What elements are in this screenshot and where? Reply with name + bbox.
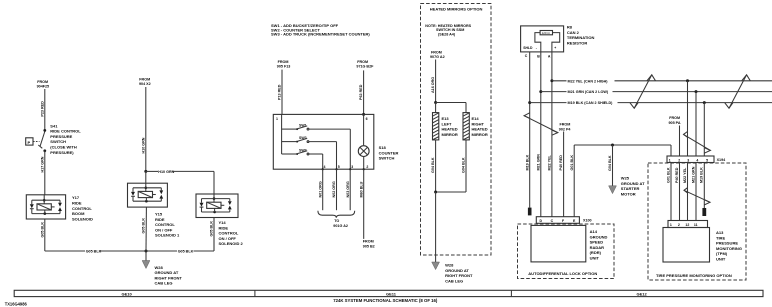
svg-text:FROM: FROM <box>139 77 150 81</box>
label Y14 <box>219 220 244 246</box>
label S18 <box>379 145 399 161</box>
svg-text:RIGHT: RIGHT <box>472 121 485 126</box>
wire M19 BLK from R8 pin C <box>525 52 529 208</box>
svg-text:Y15: Y15 <box>155 212 163 217</box>
svg-text:RIGHT FRONT: RIGHT FRONT <box>155 275 183 280</box>
svg-text:P40 RED: P40 RED <box>675 167 679 183</box>
svg-text:RESISTOR: RESISTOR <box>567 40 587 45</box>
label Y17 <box>72 195 93 221</box>
label W28 (mirrors) <box>445 263 473 284</box>
svg-text:(RDR): (RDR) <box>590 250 602 255</box>
svg-text:1: 1 <box>669 158 671 162</box>
switch SW3 <box>296 148 323 169</box>
wire P40 RED (radar) <box>559 132 563 217</box>
svg-text:B: B <box>537 54 540 58</box>
wire G05 BLK from Y14 <box>209 218 214 252</box>
connector X194 <box>667 156 726 163</box>
svg-text:C: C <box>525 54 528 58</box>
svg-text:P13 RED: P13 RED <box>278 84 282 100</box>
label E13 <box>442 116 458 137</box>
svg-text:SWITCH: SWITCH <box>50 139 66 144</box>
harness crossover symbol (TPM above connector) <box>684 132 711 154</box>
wire H10 GRN horizontal <box>144 170 214 194</box>
heated mirror element E13 <box>433 113 439 140</box>
wire H17 GRN <box>40 151 44 195</box>
svg-text:R8: R8 <box>567 25 573 30</box>
svg-text:GROUND AT: GROUND AT <box>445 268 469 273</box>
svg-text:X100: X100 <box>583 219 592 223</box>
wire H10 GRN vertical <box>141 87 145 171</box>
svg-text:3: 3 <box>687 158 689 162</box>
svg-text:CAN 2: CAN 2 <box>567 30 580 35</box>
svg-text:CONTROL: CONTROL <box>72 206 92 211</box>
wire M22 YEL from R8 pin A <box>548 52 552 217</box>
svg-text:M21 GRN: M21 GRN <box>691 166 695 183</box>
svg-text:905 PA: 905 PA <box>669 121 681 125</box>
svg-text:M19 BLK: M19 BLK <box>700 167 704 183</box>
svg-text:TO: TO <box>334 219 339 223</box>
wire G05 BLK from Y15 <box>142 207 147 251</box>
svg-text:FROM: FROM <box>669 116 680 120</box>
svg-text:M22 YEL (CAN 2 HIGH): M22 YEL (CAN 2 HIGH) <box>568 79 609 83</box>
svg-text:W28: W28 <box>445 263 454 268</box>
resistor R8 CAN 2 termination <box>521 26 564 58</box>
svg-text:H10 GRN: H10 GRN <box>141 137 145 153</box>
svg-text:6: 6 <box>366 117 368 121</box>
svg-text:CAB LEG: CAB LEG <box>445 278 463 283</box>
svg-text:FROM: FROM <box>560 122 571 126</box>
svg-text:TERMINATION: TERMINATION <box>567 35 595 40</box>
svg-text:2: 2 <box>678 223 680 227</box>
label W25 <box>621 176 645 197</box>
svg-text:RIDE: RIDE <box>219 225 229 230</box>
svg-text:G04 BLK: G04 BLK <box>462 157 466 173</box>
wire G04 BLK to starter ground <box>608 144 614 186</box>
node: FROM 905 B2 reference <box>363 240 375 249</box>
svg-text:Y17: Y17 <box>72 195 80 200</box>
svg-text:905 F13: 905 F13 <box>277 65 291 69</box>
node: FROM 905 F13 reference <box>277 60 291 69</box>
ground W25 <box>609 186 617 194</box>
wire G05 BLK from Y17 <box>40 219 44 251</box>
svg-text:TIRE: TIRE <box>716 235 725 240</box>
svg-text:MONITORING: MONITORING <box>716 246 742 251</box>
TPM unit connector pins 1 2 12 11 <box>668 221 708 228</box>
solenoid Y14 <box>196 194 238 218</box>
svg-text:FROM: FROM <box>431 51 442 55</box>
label E14 <box>472 116 488 137</box>
svg-text:GE11: GE11 <box>386 291 397 296</box>
svg-text:SOLENOID 1: SOLENOID 1 <box>155 233 180 238</box>
svg-text:M60 BLU: M60 BLU <box>359 181 363 197</box>
svg-text:G05 BLK: G05 BLK <box>178 250 194 254</box>
svg-text:BOOM: BOOM <box>72 211 85 216</box>
svg-text:2: 2 <box>678 158 680 162</box>
CAN 2 HIGH bus wire <box>550 78 772 84</box>
solenoid Y17 <box>26 195 65 219</box>
svg-text:UNIT: UNIT <box>590 256 600 261</box>
svg-text:(CLOSE WITH: (CLOSE WITH <box>50 145 77 150</box>
svg-text:STARTER: STARTER <box>621 186 640 191</box>
svg-text:SOLENOID 2: SOLENOID 2 <box>219 241 244 246</box>
svg-text:904 X2: 904 X2 <box>139 82 151 86</box>
svg-text:SHLD: SHLD <box>523 46 533 50</box>
label A13 <box>716 230 742 262</box>
svg-text:904F25: 904F25 <box>37 85 50 89</box>
svg-text:FROM: FROM <box>278 60 289 64</box>
svg-text:905 B2: 905 B2 <box>363 244 375 248</box>
mirror ground junction <box>434 191 466 263</box>
svg-text:P63 RED: P63 RED <box>359 84 363 100</box>
svg-text:4: 4 <box>324 165 326 169</box>
counter switch S18 box <box>273 114 374 169</box>
label R8 <box>567 25 595 46</box>
CAN taps to TPM: low <box>695 90 698 156</box>
svg-text:FROM: FROM <box>363 240 374 244</box>
svg-text:PRESSURE: PRESSURE <box>50 134 72 139</box>
svg-text:N02 ORG: N02 ORG <box>332 181 336 197</box>
wire G01 BLK (TPM ground feed) <box>670 145 672 156</box>
label S41 <box>50 123 81 155</box>
svg-text:RIDE: RIDE <box>72 201 82 206</box>
note SW1/SW2/SW3 functions <box>271 23 370 36</box>
label Y15 <box>155 212 180 238</box>
CAN taps to TPM: shield <box>703 101 706 156</box>
wire M19 BLK below X194 <box>700 163 705 209</box>
wire G04 BLK (E13) <box>431 140 435 192</box>
svg-text:HEATED MIRRORS OPTION: HEATED MIRRORS OPTION <box>430 7 483 12</box>
wire N03 ORG <box>346 169 350 210</box>
svg-text:4: 4 <box>696 158 698 162</box>
svg-text:11: 11 <box>694 223 698 227</box>
label W28 (left) <box>155 265 183 286</box>
wire N02 ORG <box>332 169 336 210</box>
svg-text:H17 GRN: H17 GRN <box>40 156 44 172</box>
junction node to both mirrors <box>434 101 466 113</box>
svg-text:SWITCH: SWITCH <box>379 156 395 161</box>
svg-text:A13: A13 <box>716 230 724 235</box>
note: heated mirrors switch in SSM <box>425 24 471 37</box>
svg-text:D: D <box>540 219 543 223</box>
svg-text:SWITCH IN SSM: SWITCH IN SSM <box>436 28 464 32</box>
sheet reference bar <box>14 290 763 296</box>
svg-text:971G B2F: 971G B2F <box>356 65 374 69</box>
svg-text:907G A2: 907G A2 <box>430 55 445 59</box>
svg-text:RIDE CONTROL: RIDE CONTROL <box>50 129 81 134</box>
TPM unit A13 box <box>663 228 710 263</box>
svg-text:FROM: FROM <box>37 80 48 84</box>
svg-text:H10 GRN: H10 GRN <box>158 170 174 174</box>
svg-text:SOLENOID: SOLENOID <box>72 216 93 221</box>
svg-text:901G A2: 901G A2 <box>333 224 348 228</box>
option box: auto-differential lock <box>518 224 615 279</box>
option box: heated mirrors <box>421 4 492 256</box>
radar unit A14 box <box>531 225 586 262</box>
svg-text:(TPM): (TPM) <box>716 251 728 256</box>
bus break symbol 2 <box>725 75 751 108</box>
svg-text:TX16G4986: TX16G4986 <box>5 302 28 307</box>
svg-text:P40 RED: P40 RED <box>559 155 563 171</box>
svg-text:W28: W28 <box>155 265 164 270</box>
svg-text:RADAR: RADAR <box>590 245 605 250</box>
svg-text:A: A <box>548 54 551 58</box>
svg-text:ON / OFF: ON / OFF <box>155 227 173 232</box>
svg-text:MIRROR: MIRROR <box>472 132 488 137</box>
svg-text:CAB LEG: CAB LEG <box>155 281 173 286</box>
svg-text:C: C <box>551 219 554 223</box>
svg-text:P: P <box>28 140 31 145</box>
node: FROM 971G B2F reference <box>356 60 374 69</box>
node: FROM 904F25 reference <box>37 80 50 88</box>
svg-text:GROUND: GROUND <box>590 234 608 239</box>
svg-text:S41: S41 <box>50 123 58 128</box>
wire G04 BLK (E14) <box>462 140 466 192</box>
svg-text:A16 ORG: A16 ORG <box>431 77 435 93</box>
taped end of M19 BLK (radar harness) <box>528 208 532 216</box>
taped end of M19 BLK (TPM harness) <box>702 208 706 216</box>
pressure switch S41 <box>26 129 46 152</box>
svg-text:5: 5 <box>706 158 708 162</box>
wire A16 ORG <box>431 60 435 103</box>
svg-text:(SE28 A4): (SE28 A4) <box>438 33 456 37</box>
wire P23 RED <box>40 89 44 130</box>
connector X100 <box>536 217 591 224</box>
svg-text:PRESSURE: PRESSURE <box>716 241 738 246</box>
svg-text:TIRE PRESSURE MONITORING OPTIO: TIRE PRESSURE MONITORING OPTION <box>656 273 732 278</box>
svg-text:M21 GRN (CAN 2 LOW): M21 GRN (CAN 2 LOW) <box>568 90 609 94</box>
wire N01 ORG <box>318 169 322 210</box>
svg-text:1: 1 <box>276 117 278 121</box>
S18 internal left bus <box>282 114 297 154</box>
svg-text:120 Ω: 120 Ω <box>542 31 551 35</box>
svg-text:F: F <box>562 219 565 223</box>
svg-text:G01 BLK: G01 BLK <box>570 155 574 171</box>
svg-text:CONTROL: CONTROL <box>155 222 175 227</box>
svg-text:G05 BLK: G05 BLK <box>86 250 102 254</box>
wire G05 BLK ground bus <box>45 218 214 254</box>
svg-text:X194: X194 <box>717 158 727 162</box>
svg-text:RIGHT FRONT: RIGHT FRONT <box>445 273 473 278</box>
svg-text:12: 12 <box>685 223 689 227</box>
ground W28 (left) <box>142 250 150 269</box>
svg-text:NOTE: HEATED MIRRORS: NOTE: HEATED MIRRORS <box>425 24 471 28</box>
svg-text:+: + <box>554 46 556 50</box>
lamp in S18 <box>358 114 369 169</box>
svg-text:M19 BLK (CAN 2 SHIELD): M19 BLK (CAN 2 SHIELD) <box>568 101 614 105</box>
svg-text:5: 5 <box>338 165 340 169</box>
svg-text:W25: W25 <box>621 176 630 181</box>
option box: tire pressure monitoring <box>648 163 746 280</box>
node: FROM 907G A2 reference <box>430 51 445 60</box>
harness crossover symbol (radar wires) <box>524 113 558 135</box>
label A14 <box>590 229 608 261</box>
svg-text:RIDE: RIDE <box>155 217 165 222</box>
svg-text:M21 GRN: M21 GRN <box>536 154 540 171</box>
svg-text:2: 2 <box>366 165 368 169</box>
svg-text:1: 1 <box>670 223 672 227</box>
svg-text:HEATED: HEATED <box>472 127 488 132</box>
svg-text:UNIT: UNIT <box>716 257 726 262</box>
switch SW1 <box>296 124 350 170</box>
svg-text:ON / OFF: ON / OFF <box>219 236 237 241</box>
wire P63 RED <box>359 70 365 116</box>
svg-text:GROUND AT: GROUND AT <box>621 181 645 186</box>
brace TO 901G A2 <box>318 211 355 228</box>
switch SW2 <box>296 136 336 169</box>
svg-text:M19 BLK: M19 BLK <box>525 154 529 170</box>
ground W28 (mirrors) <box>432 262 440 270</box>
svg-text:-: - <box>536 46 537 50</box>
svg-text:CONTROL: CONTROL <box>219 231 239 236</box>
svg-text:M22 YEL: M22 YEL <box>548 154 552 170</box>
svg-text:SW3 - ADD TRUCK (INCREMENT/RES: SW3 - ADD TRUCK (INCREMENT/RESET COUNTER… <box>271 32 370 37</box>
svg-text:P23 RED: P23 RED <box>40 101 44 117</box>
svg-text:G04 BLK: G04 BLK <box>608 155 612 171</box>
svg-text:FROM: FROM <box>357 60 368 64</box>
svg-text:G05 BLK: G05 BLK <box>209 221 213 237</box>
svg-text:G01 BLK: G01 BLK <box>666 167 670 183</box>
S18 bottom pins 4 5 3 2 <box>322 165 369 170</box>
wire M22 YEL below X194 <box>683 163 688 221</box>
svg-text:902 P4: 902 P4 <box>559 127 572 131</box>
wire G01 BLK below X194 <box>666 163 671 221</box>
CAN taps to TPM: high <box>686 79 689 156</box>
svg-text:G04 BLK: G04 BLK <box>431 157 435 173</box>
wire P40 RED below X194 <box>675 163 680 221</box>
CAN 2 LOW bus wire <box>539 88 772 94</box>
svg-text:M22 YEL: M22 YEL <box>683 167 687 183</box>
bus break symbol 1 <box>630 75 656 108</box>
svg-text:AUTODIFFERENTIAL LOCK OPTION: AUTODIFFERENTIAL LOCK OPTION <box>528 271 597 276</box>
node: FROM 905 PA reference <box>669 116 681 125</box>
CAN 2 SHIELD bus wire <box>528 99 772 105</box>
wire P13 RED <box>278 70 282 115</box>
svg-text:Y14: Y14 <box>219 220 227 225</box>
node: FROM 902 P4 reference <box>559 122 572 131</box>
svg-text:E: E <box>573 219 576 223</box>
node: FROM 904 X2 reference <box>139 77 151 86</box>
svg-text:E14: E14 <box>472 116 480 121</box>
svg-text:N01 ORG: N01 ORG <box>318 181 322 197</box>
harness crossover symbol (TPM below connector) <box>684 188 710 205</box>
svg-text:COUNTER: COUNTER <box>379 150 399 155</box>
svg-text:SPEED: SPEED <box>590 240 604 245</box>
svg-text:GROUND AT: GROUND AT <box>155 270 179 275</box>
wire M21 GRN from R8 pin B <box>536 52 540 217</box>
svg-text:GE12: GE12 <box>637 291 648 296</box>
wire G01 BLK (radar ground) <box>570 145 671 217</box>
svg-text:E13: E13 <box>442 116 450 121</box>
svg-text:G05 BLK: G05 BLK <box>40 222 44 238</box>
svg-text:N03 ORG: N03 ORG <box>346 181 350 197</box>
svg-text:724K SYSTEM FUNCTIONAL SCHEMAT: 724K SYSTEM FUNCTIONAL SCHEMATIC (8 OF 1… <box>333 298 438 303</box>
svg-text:GE10: GE10 <box>122 291 133 296</box>
svg-text:3: 3 <box>351 165 353 169</box>
svg-text:S18: S18 <box>379 145 387 150</box>
svg-text:MOTOR: MOTOR <box>621 191 636 196</box>
svg-text:PRESSURE): PRESSURE) <box>50 150 74 155</box>
wire P40 RED (TPM feed) <box>679 126 681 157</box>
svg-text:LEFT: LEFT <box>442 121 453 126</box>
svg-text:HEATED: HEATED <box>442 127 458 132</box>
heated mirror element E14 <box>463 113 469 140</box>
svg-text:A14: A14 <box>590 229 598 234</box>
solenoid Y15 <box>128 171 168 207</box>
svg-text:G05 BLK: G05 BLK <box>142 218 146 234</box>
wire M60 BLU <box>359 169 363 239</box>
wire M21 GRN below X194 <box>691 163 696 221</box>
svg-text:MIRROR: MIRROR <box>442 132 458 137</box>
